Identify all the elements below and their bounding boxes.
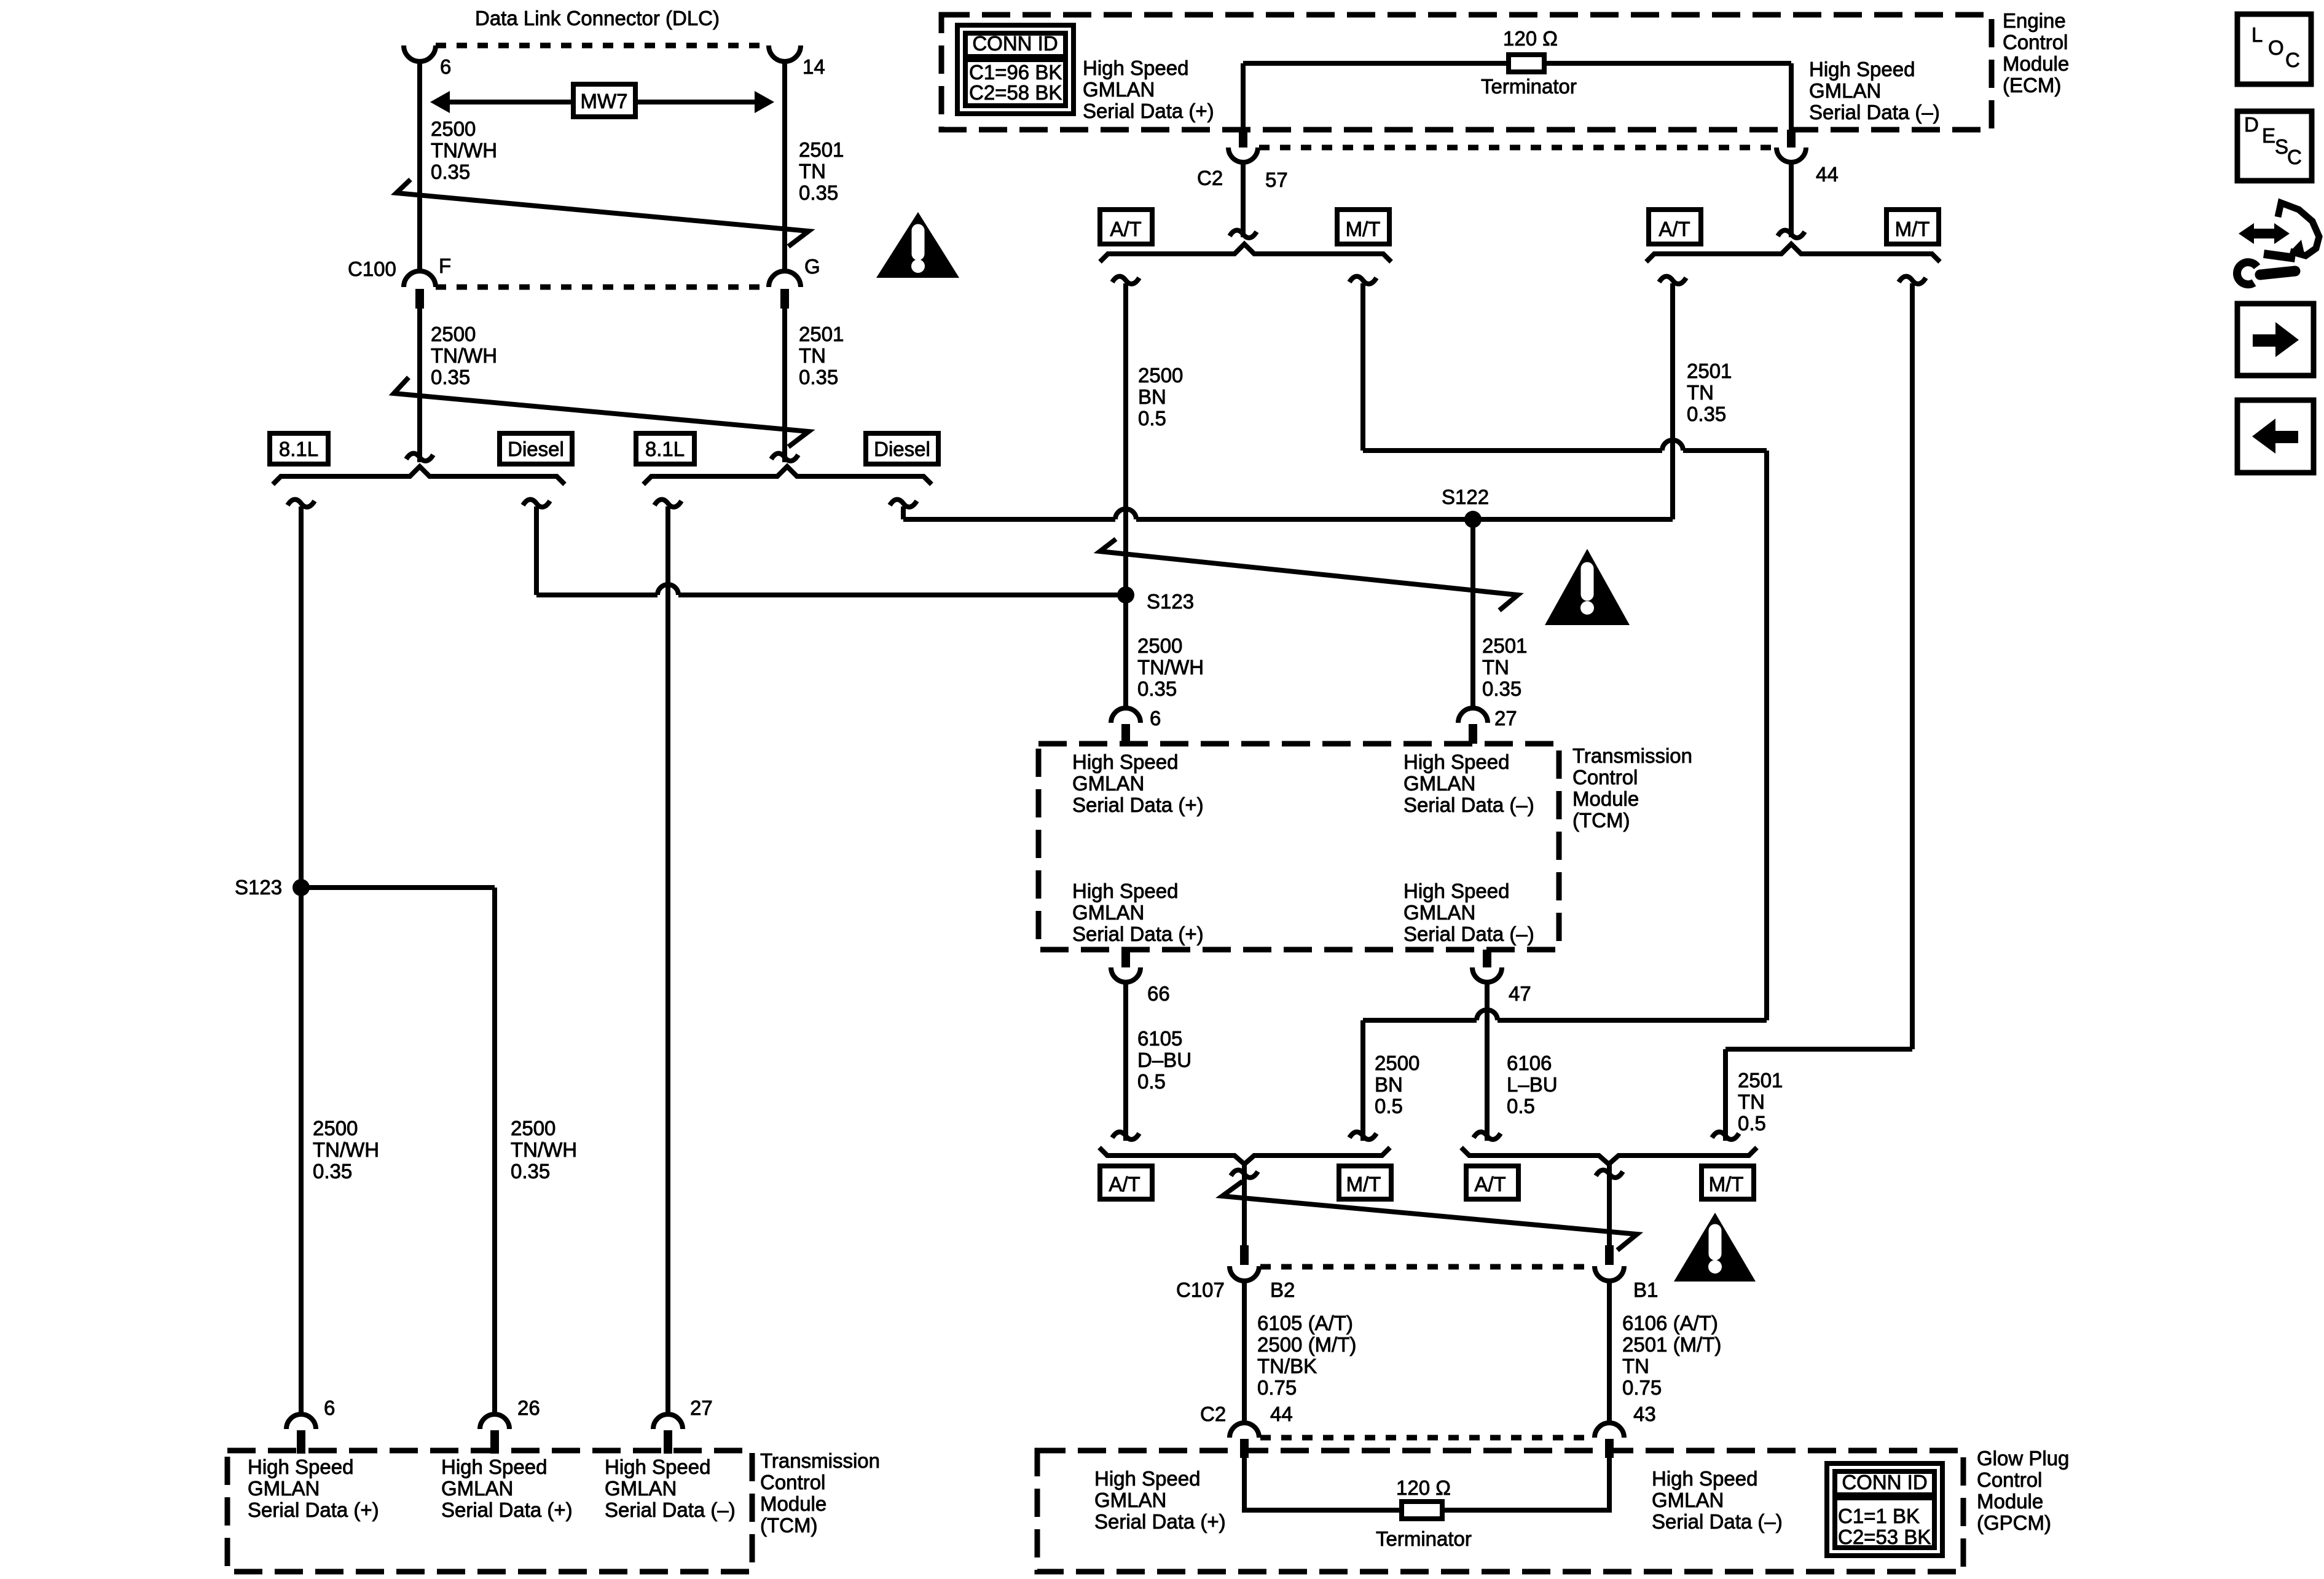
hook start of M/T-left wire	[1349, 277, 1376, 284]
wire S122 down to TCM pin 27	[1470, 519, 1475, 707]
connector pin TCM-66 cup	[1111, 967, 1140, 982]
connector pin C100-F cup	[404, 271, 436, 287]
wire ECM pin 57 vertical	[1241, 63, 1246, 130]
wire Diesel-right down	[901, 506, 906, 519]
module box TCM bottom-left (dashed)	[227, 1451, 752, 1572]
svg-text:O: O	[2268, 36, 2284, 59]
svg-text:Glow Plug: Glow Plug	[1977, 1447, 2069, 1470]
svg-text:C1=1 BK: C1=1 BK	[1838, 1505, 1920, 1527]
svg-text:TN/WH: TN/WH	[511, 1138, 577, 1161]
svg-text:8.1L: 8.1L	[279, 438, 318, 460]
svg-text:Control: Control	[1572, 766, 1638, 789]
svg-text:GMLAN: GMLAN	[1083, 78, 1155, 101]
option box 8.1L (right)	[636, 433, 694, 464]
connector pin TCMb-27 tick	[664, 1430, 672, 1454]
svg-text:Serial Data (–): Serial Data (–)	[1403, 923, 1534, 945]
svg-text:(ECM): (ECM)	[2003, 74, 2061, 96]
svg-text:Module: Module	[2003, 52, 2069, 75]
svg-text:GMLAN: GMLAN	[1072, 772, 1144, 795]
svg-text:Serial Data (+): Serial Data (+)	[1094, 1510, 1226, 1533]
svg-text:0.5: 0.5	[1137, 1070, 1166, 1093]
svg-text:GMLAN: GMLAN	[1809, 79, 1881, 102]
svg-text:2500: 2500	[313, 1117, 358, 1140]
svg-text:High Speed: High Speed	[1083, 57, 1188, 79]
ECM internal wire pin57 to pin44	[1243, 61, 1791, 66]
svg-text:2501: 2501	[1482, 634, 1527, 657]
svg-text:M/T: M/T	[1709, 1173, 1744, 1195]
connector pin C107-B1 tick	[1605, 1245, 1614, 1265]
option box A/T (top left)	[1100, 210, 1152, 244]
svg-text:6106: 6106	[1507, 1052, 1552, 1074]
svg-text:2501: 2501	[1687, 360, 1732, 382]
option box 8.1L (left)	[270, 433, 328, 464]
connector pin C2-43 cup	[1595, 1423, 1624, 1438]
wire S123 branch down to pin 26	[492, 888, 497, 1414]
MW7 box	[573, 84, 635, 117]
hook start of Diesel-left wire	[523, 500, 550, 507]
hook start of A/T-right wire	[1659, 277, 1686, 284]
svg-text:TN: TN	[799, 344, 826, 367]
module box GPCM (dashed)	[1037, 1451, 1963, 1572]
svg-text:GMLAN: GMLAN	[248, 1477, 320, 1500]
hook end of G wire	[771, 454, 798, 461]
wire S123 horizontal	[301, 885, 495, 890]
svg-text:0.75: 0.75	[1257, 1376, 1297, 1399]
connector pin C100-F tick	[415, 289, 424, 309]
svg-text:2500: 2500	[511, 1117, 555, 1140]
svg-text:Diesel: Diesel	[508, 438, 564, 460]
svg-text:2500 (M/T): 2500 (M/T)	[1257, 1333, 1356, 1356]
svg-text:D–BU: D–BU	[1137, 1049, 1191, 1071]
splice S123 (middle)	[1117, 586, 1134, 604]
svg-text:BN: BN	[1138, 385, 1166, 408]
svg-text:GMLAN: GMLAN	[441, 1477, 513, 1500]
crossover arrow (lower)	[394, 377, 809, 447]
svg-text:MW7: MW7	[581, 90, 628, 112]
svg-text:0.75: 0.75	[1622, 1376, 1662, 1399]
svg-text:43: 43	[1633, 1403, 1656, 1425]
svg-text:Control: Control	[1977, 1468, 2042, 1491]
svg-text:Serial Data (–): Serial Data (–)	[1809, 101, 1940, 124]
connector pin TCM-47 tick	[1483, 950, 1491, 967]
GPCM CONN ID table	[1827, 1463, 1942, 1556]
svg-text:120 Ω: 120 Ω	[1396, 1476, 1451, 1499]
svg-text:2500: 2500	[1138, 364, 1183, 387]
hook end of M/T-left wire	[1349, 1132, 1376, 1140]
svg-text:S123: S123	[235, 876, 282, 899]
option brace (A/T M/T right)	[1646, 244, 1940, 262]
svg-text:A/T: A/T	[1474, 1173, 1505, 1195]
MW7 arrowhead left	[430, 91, 450, 113]
wire ECM pin 44 vertical	[1789, 63, 1794, 130]
wire A/T-right down to S122 line	[1670, 283, 1675, 519]
svg-text:S: S	[2275, 135, 2288, 158]
option box Diesel (right)	[866, 433, 938, 464]
svg-text:High Speed: High Speed	[1072, 750, 1178, 773]
svg-text:High Speed: High Speed	[441, 1455, 547, 1478]
svg-text:TN/WH: TN/WH	[431, 344, 497, 367]
svg-text:High Speed: High Speed	[1094, 1467, 1200, 1490]
svg-text:120 Ω: 120 Ω	[1503, 27, 1558, 50]
svg-text:TN: TN	[799, 160, 826, 183]
svg-text:2501: 2501	[1738, 1069, 1783, 1092]
svg-text:26: 26	[517, 1396, 540, 1419]
svg-text:TN: TN	[1482, 656, 1509, 679]
svg-text:0.5: 0.5	[1375, 1095, 1403, 1117]
svg-text:Serial Data (–): Serial Data (–)	[605, 1498, 736, 1521]
connector line C2 (dotted)	[1260, 1435, 1593, 1441]
connector pin TCMb-6 tick	[297, 1430, 305, 1454]
connector line C107 (dotted)	[1260, 1264, 1593, 1270]
svg-text:8.1L: 8.1L	[645, 438, 685, 460]
svg-text:Serial Data (–): Serial Data (–)	[1652, 1510, 1783, 1533]
hook start of 8.1L-left wire	[288, 500, 315, 507]
connector pin C2-44 cup	[1230, 1423, 1259, 1438]
option brace (bottom left group)	[1099, 1148, 1390, 1164]
svg-text:A/T: A/T	[1109, 1173, 1140, 1195]
svg-text:2500: 2500	[431, 323, 476, 345]
svg-text:GMLAN: GMLAN	[1403, 901, 1475, 924]
hook end of M/T-right wire	[1712, 1132, 1739, 1140]
svg-text:M/T: M/T	[1895, 218, 1930, 240]
svg-text:M/T: M/T	[1346, 1173, 1381, 1195]
module box TCM middle (dashed)	[1038, 744, 1559, 950]
svg-text:High Speed: High Speed	[1072, 880, 1178, 902]
svg-text:2501: 2501	[799, 138, 844, 161]
svg-text:(GPCM): (GPCM)	[1977, 1511, 2051, 1534]
wire pin 66 down	[1123, 982, 1128, 1141]
svg-text:66: 66	[1147, 982, 1170, 1005]
connector pin TCM-6 cup	[1111, 708, 1140, 723]
warning triangle (top)	[876, 212, 959, 278]
svg-text:High Speed: High Speed	[248, 1455, 353, 1478]
option box M/T (top left)	[1337, 210, 1389, 244]
wire B1 to C2	[1607, 1281, 1612, 1423]
wire 8.1L-left down to S123	[299, 506, 304, 1414]
svg-text:S123: S123	[1147, 590, 1194, 613]
svg-text:GMLAN: GMLAN	[605, 1477, 677, 1500]
svg-text:6106 (A/T): 6106 (A/T)	[1622, 1312, 1718, 1334]
svg-text:M/T: M/T	[1346, 218, 1381, 240]
svg-text:S122: S122	[1442, 486, 1489, 508]
wire C100 F down	[417, 309, 422, 462]
svg-text:0.35: 0.35	[799, 366, 838, 388]
svg-text:Terminator: Terminator	[1376, 1527, 1472, 1550]
svg-text:0.5: 0.5	[1138, 407, 1166, 430]
svg-text:C100: C100	[348, 258, 396, 280]
svg-text:6: 6	[440, 55, 451, 78]
svg-text:0.35: 0.35	[799, 181, 838, 204]
connector pin C2-43 tick	[1605, 1439, 1614, 1458]
connector line C100 (dashed)	[436, 285, 769, 290]
wire pin 47 down	[1485, 982, 1490, 1141]
crossover arrow (upper)	[396, 179, 809, 246]
hook end of pin47 wire	[1474, 1132, 1501, 1140]
wire A/T-left down to S123	[1123, 283, 1128, 707]
connector pin TCMb-26 cup	[480, 1414, 509, 1429]
svg-text:2500: 2500	[1137, 634, 1182, 657]
connector line DLC (dashed)	[436, 43, 769, 49]
connector pin 57 tick	[1239, 130, 1247, 148]
hook start of M/T-right wire	[1899, 277, 1926, 284]
svg-text:GMLAN: GMLAN	[1403, 772, 1475, 795]
option box M/T (top right)	[1886, 210, 1939, 244]
wire C2-44 into GPCM	[1244, 1458, 1402, 1510]
svg-text:C2: C2	[1197, 167, 1223, 189]
wire 8.1L-right down to TCM pin 27	[665, 506, 670, 1414]
svg-text:Control: Control	[2003, 31, 2068, 53]
svg-text:B1: B1	[1633, 1278, 1658, 1301]
svg-text:C2=58 BK: C2=58 BK	[969, 81, 1062, 104]
svg-text:C: C	[2287, 146, 2302, 168]
svg-text:2501: 2501	[799, 323, 844, 345]
svg-text:C: C	[2285, 49, 2300, 71]
option box A/T (bottom right)	[1466, 1166, 1518, 1199]
icon box DESC	[2237, 111, 2312, 181]
svg-text:Serial Data (+): Serial Data (+)	[441, 1498, 573, 1521]
connector pin TCM-27 cup	[1458, 708, 1488, 723]
svg-text:BN: BN	[1375, 1073, 1403, 1096]
svg-text:6: 6	[1150, 707, 1161, 730]
connector pin C107-B2 cup	[1230, 1266, 1259, 1281]
hook start of A/T-left wire	[1112, 277, 1139, 284]
svg-text:Terminator: Terminator	[1481, 75, 1577, 98]
svg-text:C107: C107	[1176, 1278, 1225, 1301]
MW7 arrowhead right	[755, 91, 774, 113]
svg-text:E: E	[2262, 124, 2275, 147]
connector pin TCMb-26 tick	[490, 1430, 499, 1454]
wire DLC pin 6 to C100 F	[417, 61, 422, 272]
module box ECM (dashed)	[941, 15, 1992, 130]
svg-text:Serial Data (+): Serial Data (+)	[1072, 793, 1204, 816]
hook end of F wire	[406, 454, 433, 461]
svg-text:TN/WH: TN/WH	[313, 1138, 379, 1161]
hook start of 8.1L-right wire	[654, 500, 681, 507]
svg-text:Serial Data (+): Serial Data (+)	[1083, 100, 1214, 122]
wire C100 G down	[782, 309, 787, 462]
svg-text:6105 (A/T): 6105 (A/T)	[1257, 1312, 1353, 1334]
connector pin DLC-6 cup	[404, 45, 436, 61]
option box A/T (top right)	[1649, 210, 1701, 244]
svg-text:(TCM): (TCM)	[760, 1514, 817, 1537]
wire hop over pin47 wire	[1477, 1010, 1498, 1020]
svg-text:L: L	[2251, 23, 2263, 46]
svg-text:B2: B2	[1270, 1278, 1295, 1301]
warning triangle (middle)	[1545, 549, 1630, 625]
svg-text:Diesel: Diesel	[874, 438, 930, 460]
svg-text:0.35: 0.35	[431, 160, 470, 183]
resistor 120 ohm terminator (ECM)	[1509, 55, 1544, 72]
svg-text:Module: Module	[1977, 1490, 2043, 1513]
svg-text:0.35: 0.35	[313, 1160, 352, 1183]
resistor 120 ohm terminator (GPCM)	[1402, 1502, 1442, 1519]
svg-text:C1=96 BK: C1=96 BK	[969, 61, 1062, 84]
crossover arrow (bottom)	[1222, 1181, 1637, 1250]
svg-text:TN/BK: TN/BK	[1257, 1355, 1317, 1377]
svg-text:GMLAN: GMLAN	[1652, 1489, 1724, 1511]
hook end of pin44 wire	[1778, 230, 1805, 238]
hook start of B2 wire	[1231, 1170, 1258, 1178]
warning triangle (bottom)	[1674, 1213, 1756, 1282]
svg-text:6: 6	[324, 1396, 335, 1419]
svg-text:Serial Data (+): Serial Data (+)	[1072, 923, 1204, 945]
icon box right arrow	[2237, 304, 2314, 376]
svg-text:0.35: 0.35	[431, 366, 470, 388]
svg-text:0.35: 0.35	[1482, 677, 1521, 700]
svg-text:Serial Data (+): Serial Data (+)	[248, 1498, 379, 1521]
option brace (bottom right group)	[1461, 1148, 1757, 1164]
icon crossed arrows and wrench	[2237, 203, 2319, 285]
svg-text:0.5: 0.5	[1507, 1095, 1535, 1117]
svg-text:Transmission: Transmission	[760, 1449, 880, 1472]
svg-text:Module: Module	[1572, 787, 1639, 810]
svg-text:A/T: A/T	[1659, 218, 1690, 240]
svg-text:Transmission: Transmission	[1572, 744, 1692, 767]
wire M/T-right jog	[1725, 1047, 1912, 1052]
svg-text:D: D	[2244, 113, 2259, 136]
svg-text:High Speed: High Speed	[1403, 880, 1509, 902]
connector pin TCMb-27 cup	[653, 1414, 683, 1429]
MW7 arrow line	[438, 100, 767, 104]
crossover arrow (middle)	[1100, 539, 1518, 610]
svg-text:0.35: 0.35	[1137, 677, 1177, 700]
svg-text:Data Link Connector (DLC): Data Link Connector (DLC)	[475, 7, 720, 30]
option brace (8.1L/Diesel right)	[643, 467, 932, 484]
svg-text:G: G	[804, 255, 820, 278]
svg-text:Control: Control	[760, 1471, 825, 1494]
svg-text:44: 44	[1270, 1403, 1293, 1425]
hook start of Diesel-right wire	[890, 500, 917, 507]
svg-text:TN/WH: TN/WH	[431, 139, 497, 162]
svg-text:27: 27	[690, 1396, 713, 1419]
svg-text:2500: 2500	[431, 117, 476, 140]
connector pin TCMb-6 cup	[286, 1414, 316, 1429]
wire C2-43 into GPCM	[1442, 1458, 1609, 1510]
connector pin 44 tick	[1787, 130, 1796, 148]
svg-text:TN: TN	[1738, 1090, 1765, 1113]
svg-text:2500: 2500	[1375, 1052, 1419, 1074]
svg-text:A/T: A/T	[1110, 218, 1141, 240]
svg-text:High Speed: High Speed	[1809, 58, 1915, 81]
connector pin TCM-27 tick	[1469, 724, 1477, 744]
svg-text:CONN ID: CONN ID	[1842, 1471, 1927, 1494]
wire S122 horizontal run	[903, 517, 1115, 522]
connector pin TCM-6 tick	[1121, 724, 1130, 744]
option box M/T (bottom right)	[1702, 1166, 1754, 1199]
svg-text:F: F	[439, 254, 451, 277]
svg-text:44: 44	[1816, 163, 1839, 186]
svg-text:2501 (M/T): 2501 (M/T)	[1622, 1333, 1721, 1356]
svg-text:0.35: 0.35	[511, 1160, 550, 1183]
connector pin 44 cup	[1776, 148, 1806, 162]
svg-text:TN/WH: TN/WH	[1137, 656, 1204, 679]
wire Diesel-left down	[534, 506, 539, 595]
option box Diesel (left)	[500, 433, 572, 464]
wire B2 from brace	[1242, 1164, 1247, 1245]
svg-text:0.5: 0.5	[1738, 1112, 1766, 1135]
svg-text:Engine: Engine	[2003, 9, 2066, 32]
svg-text:Module: Module	[760, 1492, 826, 1515]
wire below pin 57	[1241, 162, 1246, 237]
ECM CONN ID table	[957, 25, 1074, 114]
svg-text:0.35: 0.35	[1687, 403, 1726, 425]
svg-text:GMLAN: GMLAN	[1094, 1489, 1166, 1511]
svg-text:6105: 6105	[1137, 1027, 1182, 1050]
icon box left arrow	[2237, 400, 2314, 473]
svg-text:TN: TN	[1687, 381, 1714, 404]
svg-text:Serial Data (–): Serial Data (–)	[1403, 793, 1534, 816]
connector pin TCM-66 tick	[1121, 950, 1130, 967]
wire M/T-left lower vertical	[1360, 1020, 1365, 1141]
wire M/T-left down and across	[1360, 283, 1365, 451]
svg-text:L–BU: L–BU	[1507, 1073, 1558, 1096]
svg-text:GMLAN: GMLAN	[1072, 901, 1144, 924]
connector pin C2-44 tick	[1240, 1439, 1249, 1458]
wire DLC pin 14 to C100 G	[782, 61, 787, 272]
svg-text:High Speed: High Speed	[1652, 1467, 1757, 1490]
option brace (A/T M/T left)	[1100, 244, 1391, 262]
svg-text:(TCM): (TCM)	[1572, 809, 1630, 832]
svg-text:27: 27	[1494, 707, 1517, 730]
connector pin C107-B1 cup	[1595, 1266, 1624, 1281]
wire M/T-left lower horizontal	[1363, 1018, 1477, 1023]
svg-text:C2=53 BK: C2=53 BK	[1838, 1526, 1931, 1548]
wire hop over A/T-left wire	[1115, 509, 1136, 519]
icon box LOC	[2237, 14, 2311, 84]
wire B1 from brace	[1607, 1164, 1612, 1245]
connector pin TCM-47 cup	[1472, 967, 1502, 982]
svg-text:High Speed: High Speed	[1403, 750, 1509, 773]
hook start of B1 wire	[1596, 1170, 1623, 1178]
svg-text:47: 47	[1509, 982, 1531, 1005]
svg-text:High Speed: High Speed	[605, 1455, 710, 1478]
option brace (8.1L/Diesel left)	[273, 467, 565, 484]
wire S123 horizontal (Diesel-left to S123)	[536, 593, 658, 597]
wire hop over A/T-right wire	[1662, 440, 1683, 451]
wire B2 to C2	[1242, 1281, 1247, 1423]
wire hop over 8.1L-right wire	[658, 585, 678, 595]
option box M/T (bottom left)	[1339, 1166, 1391, 1199]
svg-text:CONN ID: CONN ID	[972, 32, 1058, 55]
svg-text:57: 57	[1265, 168, 1288, 191]
svg-text:C2: C2	[1200, 1403, 1226, 1425]
wire below pin 44	[1789, 162, 1794, 237]
svg-text:14: 14	[803, 55, 825, 78]
connector pin DLC-14 cup	[769, 45, 801, 61]
connector pin C107-B2 tick	[1240, 1245, 1249, 1265]
connector pin C100-G cup	[769, 271, 801, 287]
splice S122	[1464, 511, 1482, 528]
connector pin 57 cup	[1228, 148, 1258, 162]
connector line ECM C2 (dotted)	[1259, 145, 1775, 151]
wire M/T-right long vertical	[1910, 283, 1915, 1049]
option box A/T (bottom left)	[1100, 1166, 1152, 1199]
hook end of pin57 wire	[1230, 230, 1257, 238]
connector pin C100-G tick	[780, 289, 789, 309]
splice S123 (left)	[292, 879, 310, 896]
hook end of pin66 wire	[1112, 1132, 1139, 1140]
svg-text:TN: TN	[1622, 1355, 1649, 1377]
